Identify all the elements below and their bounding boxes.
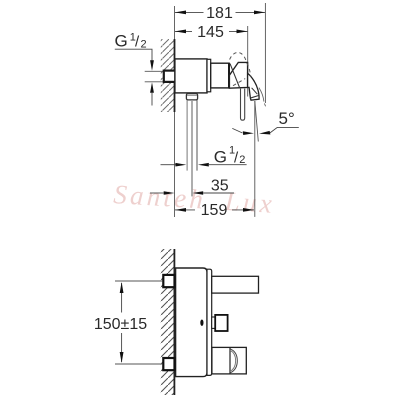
dimension 150 extension top xyxy=(115,280,163,282)
handle base inner diagonal xyxy=(230,64,240,89)
5 degree left arrow xyxy=(243,131,254,135)
lever inner diagonal xyxy=(252,88,258,94)
knob tab xyxy=(212,317,216,328)
cartridge housing xyxy=(211,63,229,88)
outlet dome arc outer xyxy=(230,349,237,373)
dimension 181 line xyxy=(175,11,204,13)
diverter knob xyxy=(215,315,227,331)
lever cap line xyxy=(251,95,260,98)
G 1/2 leader line xyxy=(115,49,152,60)
extension line 159 / 5 degrees vertical xyxy=(254,101,256,217)
svg-text:145: 145 xyxy=(197,24,224,41)
svg-text:G: G xyxy=(214,147,227,166)
hose pipe center line xyxy=(191,100,193,196)
cartridge front edge xyxy=(228,63,230,88)
svg-text:150±15: 150±15 xyxy=(94,316,147,333)
dimension 150 up arrow xyxy=(120,282,124,293)
svg-text:G: G xyxy=(115,32,128,51)
dimension 181 left arrow xyxy=(175,11,186,15)
wall face edge (upper view) xyxy=(174,39,176,112)
mixer body (upper view) xyxy=(175,59,207,93)
lever bar (lower view) xyxy=(212,276,259,293)
body dot xyxy=(200,320,203,326)
svg-text:181: 181 xyxy=(206,5,233,22)
body ring xyxy=(207,59,211,92)
bottom union square xyxy=(163,358,174,370)
lever xyxy=(248,73,260,100)
wall face edge (lower view) xyxy=(173,249,175,395)
5 degree tilted line xyxy=(255,101,258,142)
extension line for 181 xyxy=(264,3,266,103)
nipple extension lines xyxy=(145,70,164,72)
hose nut xyxy=(186,94,197,100)
hose pipe left line xyxy=(186,100,188,171)
wall face extension line (upper view) xyxy=(174,6,176,217)
5 degree left leader xyxy=(232,128,242,133)
svg-text:159: 159 xyxy=(201,202,228,219)
dimension G 1/2 (middle) xyxy=(161,164,176,166)
dashed raised lever front xyxy=(247,63,251,77)
inlet nipple through wall xyxy=(164,71,176,82)
G 1/2 down arrow xyxy=(150,60,154,71)
temperature stop cylinder below handle xyxy=(241,89,245,121)
dimension 150 extension bottom xyxy=(115,363,163,365)
lever sweep arc xyxy=(259,88,264,102)
G 1/2 up arrow xyxy=(150,82,154,93)
dimension 145 right arrow xyxy=(237,30,248,34)
extension line for 145 xyxy=(247,26,249,97)
outlet coupling (lower view) xyxy=(212,347,246,374)
dimension 145 line xyxy=(175,30,192,32)
top union square xyxy=(163,275,174,287)
mixer body (lower view) xyxy=(176,268,207,377)
outlet dome arc inner xyxy=(230,350,236,371)
wall hatch (lower view) xyxy=(161,249,175,395)
dimension 181 right arrow xyxy=(254,11,265,15)
dashed raised handle arc xyxy=(230,52,247,62)
dimension 150 down arrow xyxy=(120,352,124,363)
G 1/2 label (top left) xyxy=(115,32,147,51)
wall hatch (upper view) xyxy=(161,39,175,112)
dimension 35 xyxy=(150,192,164,194)
body rim (lower view) xyxy=(207,269,212,375)
handle base xyxy=(229,62,247,88)
svg-text:5°: 5° xyxy=(279,109,295,128)
5 degree right leader xyxy=(270,127,299,132)
G 1/2 text (middle) xyxy=(214,144,246,166)
dashed handle inside segment xyxy=(233,79,245,86)
dimension 159 xyxy=(175,209,195,211)
svg-text:2: 2 xyxy=(239,154,245,166)
outlet divider line xyxy=(229,348,231,374)
hose pipe right line xyxy=(196,100,198,171)
5 degree right arrow xyxy=(259,131,270,135)
svg-text:35: 35 xyxy=(211,177,229,194)
dimension 150 line xyxy=(121,283,123,313)
dimension 145 left arrow xyxy=(175,30,186,34)
